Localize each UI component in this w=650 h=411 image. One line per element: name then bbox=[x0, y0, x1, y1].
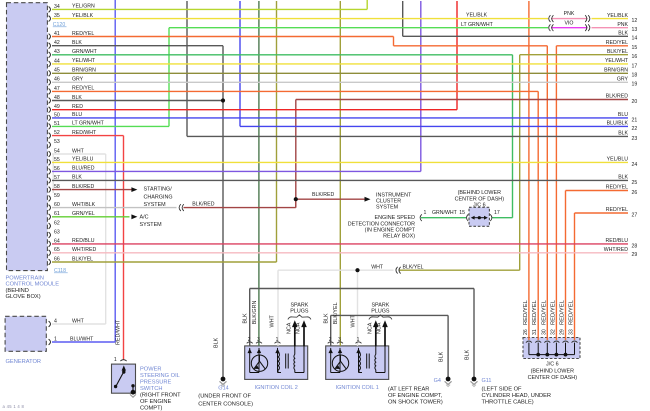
svg-text:BLK/YEL: BLK/YEL bbox=[403, 265, 424, 271]
svg-text:28: 28 bbox=[632, 243, 638, 249]
svg-text:CHARGING: CHARGING bbox=[144, 194, 173, 200]
svg-text:J/C 6: J/C 6 bbox=[546, 362, 559, 368]
svg-text:BLK/GRN: BLK/GRN bbox=[252, 301, 258, 325]
svg-text:YEL/WHT: YEL/WHT bbox=[605, 58, 629, 64]
svg-text:14: 14 bbox=[632, 36, 638, 42]
svg-text:DETECTION CONNECTOR: DETECTION CONNECTOR bbox=[348, 221, 415, 227]
svg-text:56: 56 bbox=[54, 166, 60, 172]
svg-text:IGNITION COIL 1: IGNITION COIL 1 bbox=[336, 385, 379, 391]
svg-text:47: 47 bbox=[54, 86, 60, 92]
svg-text:RED/YEL: RED/YEL bbox=[72, 86, 94, 92]
svg-text:52: 52 bbox=[54, 130, 60, 136]
svg-text:RED/YEL: RED/YEL bbox=[72, 31, 94, 37]
svg-text:COMPT): COMPT) bbox=[140, 406, 163, 411]
svg-text:WHT/BLK: WHT/BLK bbox=[72, 202, 96, 208]
svg-text:INSTRUMENT: INSTRUMENT bbox=[376, 192, 412, 198]
svg-text:35: 35 bbox=[54, 13, 60, 19]
svg-text:51: 51 bbox=[54, 121, 60, 127]
svg-text:55: 55 bbox=[54, 157, 60, 163]
svg-text:NCA: NCA bbox=[368, 322, 374, 334]
svg-text:YEL/GRN: YEL/GRN bbox=[72, 4, 95, 10]
svg-text:BLK: BLK bbox=[72, 175, 82, 181]
svg-text:RED/YEL: RED/YEL bbox=[532, 299, 538, 325]
svg-text:IGNITION COIL 2: IGNITION COIL 2 bbox=[255, 385, 298, 391]
svg-text:OF ENGINE: OF ENGINE bbox=[140, 399, 171, 405]
svg-text:WHT: WHT bbox=[350, 315, 356, 328]
svg-text:17: 17 bbox=[494, 210, 500, 216]
svg-text:WHT: WHT bbox=[371, 265, 384, 271]
svg-text:17: 17 bbox=[632, 63, 638, 69]
svg-text:GENERATOR: GENERATOR bbox=[6, 359, 42, 365]
svg-text:23: 23 bbox=[632, 136, 638, 142]
svg-text:BLK/RED: BLK/RED bbox=[312, 192, 334, 198]
svg-text:GRY: GRY bbox=[617, 77, 629, 83]
svg-text:33: 33 bbox=[569, 329, 575, 335]
svg-text:1: 1 bbox=[357, 337, 360, 343]
svg-text:BLU: BLU bbox=[72, 112, 82, 118]
svg-text:BLK: BLK bbox=[464, 349, 470, 360]
svg-text:49: 49 bbox=[54, 104, 60, 110]
svg-text:G14: G14 bbox=[218, 386, 228, 392]
svg-text:OF ENGINE COMPT,: OF ENGINE COMPT, bbox=[388, 393, 443, 399]
svg-text:61: 61 bbox=[54, 211, 60, 217]
svg-text:41: 41 bbox=[54, 31, 60, 37]
svg-text:29: 29 bbox=[632, 252, 638, 258]
svg-text:YEL/BLK: YEL/BLK bbox=[466, 13, 488, 19]
svg-text:66: 66 bbox=[54, 256, 60, 262]
svg-text:RELAY BOX): RELAY BOX) bbox=[383, 234, 415, 240]
svg-text:(AT LEFT REAR: (AT LEFT REAR bbox=[388, 386, 429, 392]
svg-text:15: 15 bbox=[459, 210, 465, 216]
svg-text:YEL/BLK: YEL/BLK bbox=[72, 13, 94, 19]
svg-text:65: 65 bbox=[54, 247, 60, 253]
svg-text:2: 2 bbox=[248, 337, 251, 343]
svg-text:BRN/GRN: BRN/GRN bbox=[72, 68, 96, 74]
svg-text:YEL/BLU: YEL/BLU bbox=[607, 157, 629, 163]
svg-text:GRY: GRY bbox=[72, 77, 84, 83]
svg-text:YEL/WHT: YEL/WHT bbox=[72, 58, 96, 64]
svg-text:WHT/RED: WHT/RED bbox=[604, 247, 628, 253]
svg-text:(IN ENGINE COMPT: (IN ENGINE COMPT bbox=[365, 227, 416, 233]
svg-text:3: 3 bbox=[338, 337, 341, 343]
svg-text:CLUSTER: CLUSTER bbox=[376, 198, 401, 204]
svg-text:RED/YEL: RED/YEL bbox=[523, 299, 529, 325]
svg-text:BLK/RED: BLK/RED bbox=[606, 94, 628, 100]
svg-text:SYSTEM: SYSTEM bbox=[140, 222, 163, 228]
svg-text:SYSTEM: SYSTEM bbox=[144, 202, 167, 208]
svg-text:32: 32 bbox=[550, 329, 556, 335]
svg-text:50: 50 bbox=[54, 112, 60, 118]
svg-text:1: 1 bbox=[424, 210, 427, 216]
svg-text:WHT: WHT bbox=[269, 315, 275, 328]
svg-text:16: 16 bbox=[632, 54, 638, 60]
svg-text:STARTING/: STARTING/ bbox=[144, 187, 173, 193]
svg-text:57: 57 bbox=[54, 175, 60, 181]
svg-text:2: 2 bbox=[329, 337, 332, 343]
svg-text:RED/YEL: RED/YEL bbox=[569, 299, 575, 325]
svg-text:53: 53 bbox=[54, 139, 60, 145]
svg-text:44: 44 bbox=[54, 58, 60, 64]
svg-text:26: 26 bbox=[632, 190, 638, 196]
svg-text:21: 21 bbox=[632, 117, 638, 123]
svg-text:26: 26 bbox=[523, 329, 529, 335]
svg-text:27: 27 bbox=[632, 212, 638, 218]
svg-text:VIO: VIO bbox=[565, 21, 574, 27]
svg-text:ON SHOCK TOWER): ON SHOCK TOWER) bbox=[388, 399, 443, 405]
svg-text:BLK/YEL: BLK/YEL bbox=[333, 302, 339, 324]
svg-text:58: 58 bbox=[54, 184, 60, 190]
svg-text:4: 4 bbox=[54, 318, 57, 324]
svg-text:WHT: WHT bbox=[72, 318, 85, 324]
svg-text:CYLINDER HEAD, UNDER: CYLINDER HEAD, UNDER bbox=[482, 393, 552, 399]
svg-text:BLK: BLK bbox=[72, 95, 82, 101]
svg-text:BLK: BLK bbox=[72, 40, 82, 46]
svg-text:BLK/YEL: BLK/YEL bbox=[72, 256, 93, 262]
svg-text:RED/BLU: RED/BLU bbox=[72, 238, 95, 244]
svg-text:60: 60 bbox=[54, 202, 60, 208]
svg-text:BLU/BLK: BLU/BLK bbox=[607, 121, 629, 127]
svg-text:CENTER CONSOLE): CENTER CONSOLE) bbox=[198, 401, 253, 407]
svg-text:12: 12 bbox=[632, 18, 638, 24]
svg-text:RED/YEL: RED/YEL bbox=[541, 299, 547, 325]
svg-text:BLK/YEL: BLK/YEL bbox=[607, 49, 628, 55]
svg-text:LT GRN/WHT: LT GRN/WHT bbox=[72, 121, 105, 127]
svg-text:STEERING OIL: STEERING OIL bbox=[140, 373, 180, 379]
svg-text:(LEFT SIDE OF: (LEFT SIDE OF bbox=[482, 386, 523, 392]
svg-text:a 45 1 4 8: a 45 1 4 8 bbox=[3, 404, 25, 409]
svg-text:PRESSURE: PRESSURE bbox=[140, 380, 171, 386]
svg-text:1: 1 bbox=[54, 336, 57, 342]
svg-text:BLK: BLK bbox=[618, 175, 628, 181]
svg-text:POWER: POWER bbox=[140, 367, 162, 373]
svg-text:SPARK: SPARK bbox=[290, 302, 308, 308]
svg-text:BLK/RED: BLK/RED bbox=[72, 184, 94, 190]
svg-text:(BEHIND: (BEHIND bbox=[6, 288, 29, 294]
svg-text:RED/YEL: RED/YEL bbox=[606, 207, 628, 213]
svg-text:YEL/BLK: YEL/BLK bbox=[607, 13, 629, 19]
svg-text:30: 30 bbox=[541, 329, 547, 335]
svg-text:34: 34 bbox=[54, 4, 60, 10]
svg-text:SYSTEM: SYSTEM bbox=[376, 205, 399, 211]
svg-text:(BEHIND LOWER: (BEHIND LOWER bbox=[458, 190, 502, 196]
svg-text:RED/YEL: RED/YEL bbox=[550, 299, 556, 325]
svg-text:19: 19 bbox=[632, 82, 638, 88]
svg-text:BRN/GRN: BRN/GRN bbox=[604, 68, 628, 74]
svg-text:RED/WHT: RED/WHT bbox=[116, 319, 122, 345]
svg-text:BLK: BLK bbox=[323, 313, 329, 324]
svg-text:RED/WHT: RED/WHT bbox=[72, 130, 97, 136]
svg-text:54: 54 bbox=[54, 148, 60, 154]
svg-text:1: 1 bbox=[276, 337, 279, 343]
svg-text:64: 64 bbox=[54, 238, 60, 244]
svg-text:15: 15 bbox=[632, 45, 638, 51]
svg-text:GRN/WHT: GRN/WHT bbox=[432, 210, 458, 216]
svg-text:GLOVE BOX): GLOVE BOX) bbox=[6, 294, 41, 300]
svg-text:RED/YEL: RED/YEL bbox=[606, 40, 628, 46]
svg-text:WHT: WHT bbox=[72, 148, 85, 154]
svg-text:25: 25 bbox=[632, 180, 638, 186]
svg-text:G4: G4 bbox=[434, 378, 441, 384]
svg-text:24: 24 bbox=[632, 162, 638, 168]
svg-text:63: 63 bbox=[54, 229, 60, 235]
svg-text:BLK: BLK bbox=[618, 31, 628, 37]
svg-text:THROTTLE CABLE): THROTTLE CABLE) bbox=[482, 399, 534, 405]
svg-text:SPARK: SPARK bbox=[371, 302, 389, 308]
svg-text:46: 46 bbox=[54, 77, 60, 83]
svg-text:3: 3 bbox=[257, 337, 260, 343]
svg-text:31: 31 bbox=[532, 329, 538, 335]
svg-text:NCA: NCA bbox=[377, 322, 383, 334]
svg-text:ENGINE SPEED: ENGINE SPEED bbox=[375, 215, 416, 221]
svg-text:J/C 6: J/C 6 bbox=[473, 202, 486, 208]
svg-text:BLK: BLK bbox=[438, 351, 444, 362]
svg-text:A/C: A/C bbox=[140, 214, 149, 220]
svg-text:PLUGS: PLUGS bbox=[290, 309, 309, 315]
svg-text:(RIGHT FRONT: (RIGHT FRONT bbox=[140, 393, 181, 399]
svg-text:BLK: BLK bbox=[213, 337, 219, 348]
svg-text:1: 1 bbox=[114, 357, 117, 363]
svg-text:RED/YEL: RED/YEL bbox=[606, 185, 628, 191]
svg-text:LT GRN/WHT: LT GRN/WHT bbox=[461, 22, 494, 28]
svg-text:NCA: NCA bbox=[296, 322, 302, 334]
svg-text:BLK: BLK bbox=[242, 313, 248, 324]
svg-text:59: 59 bbox=[54, 193, 60, 199]
svg-text:48: 48 bbox=[54, 95, 60, 101]
svg-text:RED/YEL: RED/YEL bbox=[560, 299, 566, 325]
svg-text:20: 20 bbox=[632, 99, 638, 105]
svg-text:18: 18 bbox=[632, 73, 638, 79]
svg-text:22: 22 bbox=[632, 126, 638, 132]
svg-text:43: 43 bbox=[54, 49, 60, 55]
svg-text:RED/BLU: RED/BLU bbox=[606, 238, 629, 244]
svg-text:62: 62 bbox=[54, 220, 60, 226]
svg-text:BLU/WHT: BLU/WHT bbox=[70, 336, 94, 342]
svg-text:NCA: NCA bbox=[287, 322, 293, 334]
svg-text:42: 42 bbox=[54, 40, 60, 46]
svg-text:G11: G11 bbox=[482, 378, 492, 384]
svg-text:CONTROL MODULE: CONTROL MODULE bbox=[6, 282, 60, 288]
svg-text:(UNDER FRONT OF: (UNDER FRONT OF bbox=[198, 394, 251, 400]
svg-text:WHT/RED: WHT/RED bbox=[72, 247, 96, 253]
svg-text:BLK: BLK bbox=[618, 131, 628, 137]
svg-text:GRN/YEL: GRN/YEL bbox=[72, 211, 95, 217]
svg-text:BLK/RED: BLK/RED bbox=[192, 201, 214, 207]
svg-text:PNK: PNK bbox=[564, 11, 575, 17]
svg-text:13: 13 bbox=[632, 27, 638, 33]
svg-text:POWERTRAIN: POWERTRAIN bbox=[6, 275, 44, 281]
svg-text:29: 29 bbox=[560, 329, 566, 335]
svg-text:PNK: PNK bbox=[617, 22, 628, 28]
svg-text:YEL/BLU: YEL/BLU bbox=[72, 157, 94, 163]
svg-text:SWITCH: SWITCH bbox=[140, 386, 162, 392]
svg-text:RED: RED bbox=[72, 104, 83, 110]
svg-text:GRN/WHT: GRN/WHT bbox=[72, 49, 98, 55]
svg-text:CENTER OF DASH): CENTER OF DASH) bbox=[528, 375, 578, 381]
svg-text:(BEHIND LOWER: (BEHIND LOWER bbox=[531, 368, 575, 374]
svg-text:BLU: BLU bbox=[618, 112, 628, 118]
svg-text:PLUGS: PLUGS bbox=[371, 309, 390, 315]
svg-text:45: 45 bbox=[54, 68, 60, 74]
svg-text:BLU/RED: BLU/RED bbox=[72, 166, 95, 172]
